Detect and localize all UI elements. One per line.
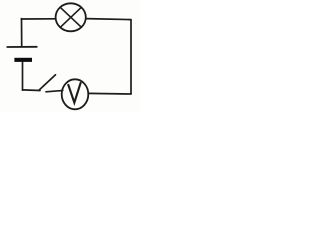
wire right vertical [130, 20, 132, 94]
switch S1 (open blade) [39, 75, 60, 92]
wire top-left (node to lamp) [21, 18, 55, 20]
wire bottom-left (left corner to switch) [22, 89, 40, 92]
lamp L1 [56, 3, 86, 31]
voltmeter V1 [62, 79, 89, 109]
wire voltmeter to switch fixed contact [60, 89, 63, 92]
wire top-right (lamp to right corner) [86, 19, 131, 20]
battery B1 (single cell) [7, 47, 37, 62]
wire left vertical (to battery +) [21, 19, 23, 47]
wire bottom-right (right corner to voltmeter) [88, 92, 131, 95]
wire battery - to bottom-left corner [22, 62, 24, 90]
